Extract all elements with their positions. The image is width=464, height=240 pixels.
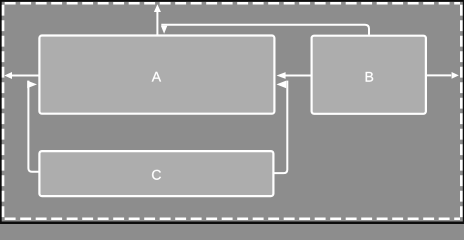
box A bbox=[39, 36, 274, 114]
arrow B to A over the top bbox=[161, 25, 369, 35]
arrow B to A direct bbox=[277, 72, 312, 79]
arrow A exits up through boundary bbox=[154, 4, 161, 35]
box C bbox=[39, 151, 273, 196]
arrow C to A looping up the right side bbox=[274, 81, 287, 174]
box B bbox=[312, 36, 426, 114]
arrow C to A looping up the left side bbox=[27, 81, 39, 172]
label B bbox=[366, 72, 373, 82]
label A bbox=[152, 72, 161, 82]
label C bbox=[152, 170, 161, 180]
arrow B exits right through boundary bbox=[427, 72, 459, 79]
arrow A exits left through boundary bbox=[4, 72, 39, 79]
